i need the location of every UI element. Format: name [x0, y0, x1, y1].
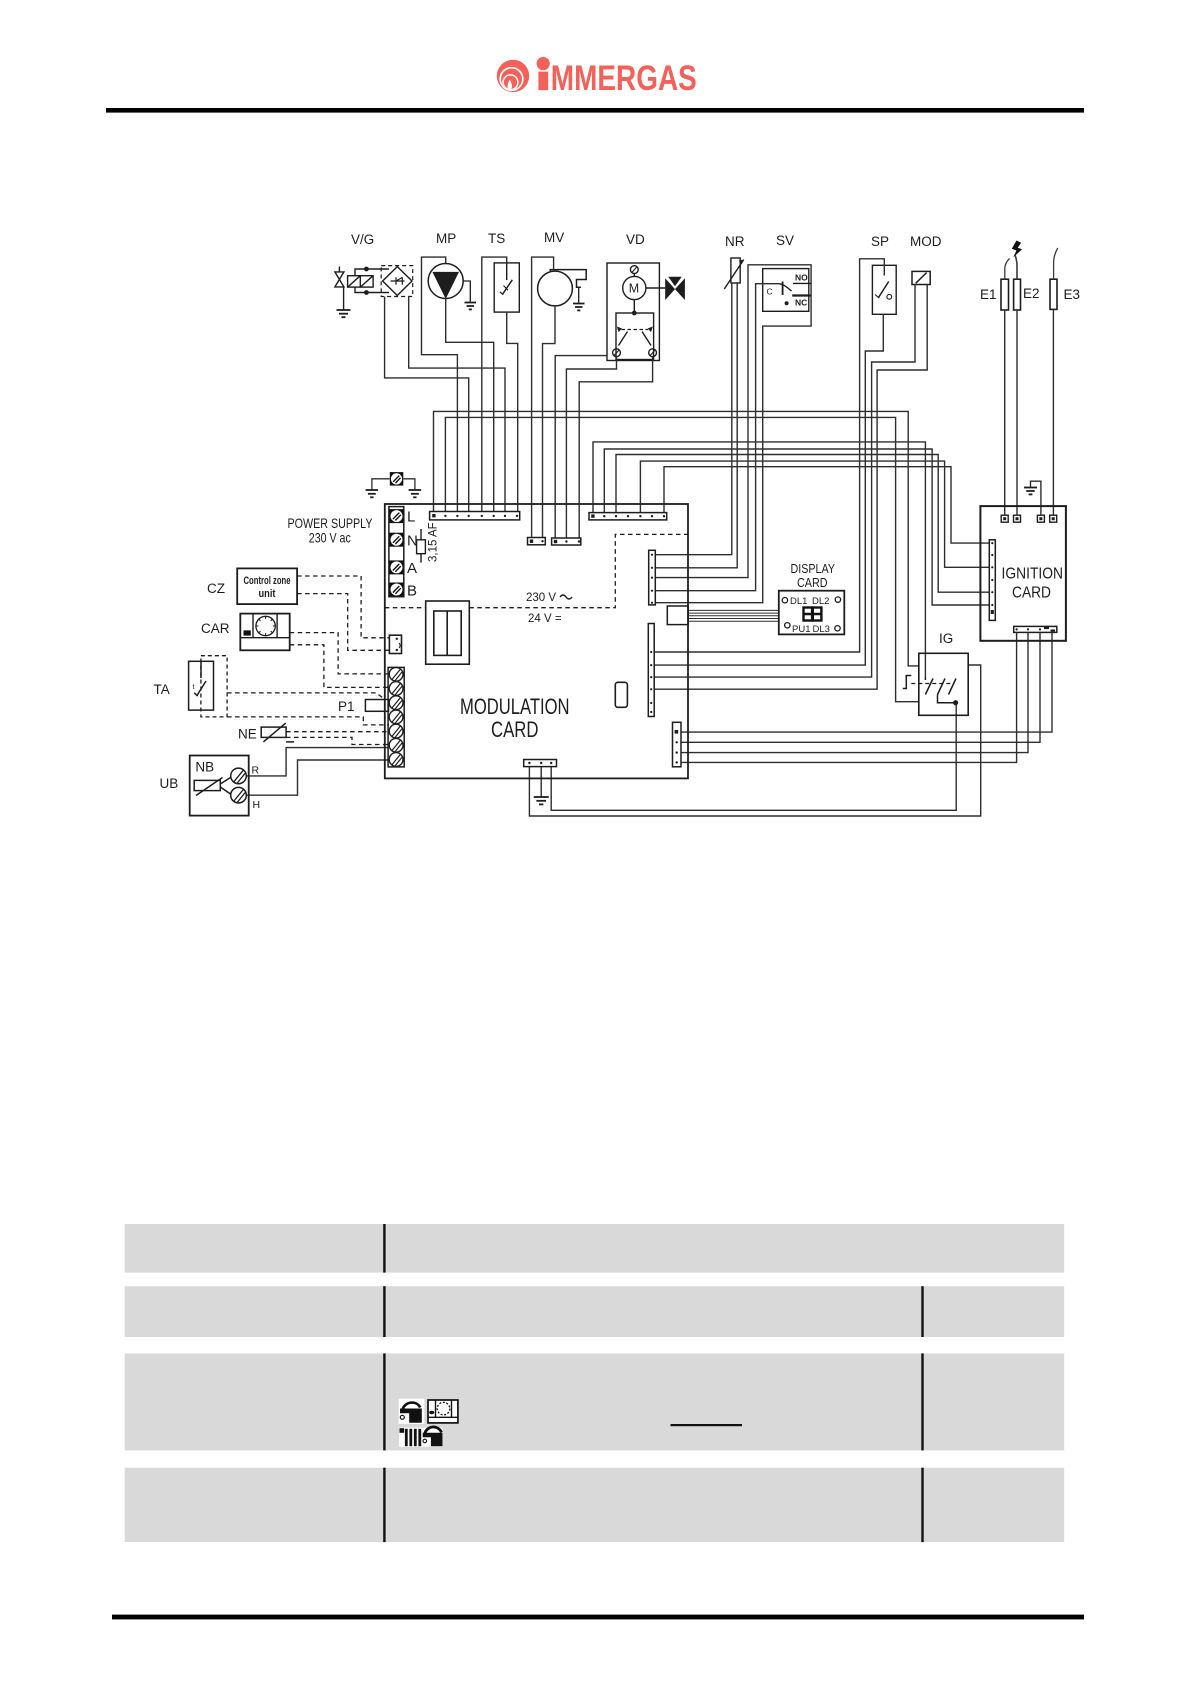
- wire conn4 pin3 nested to ignition connector pin3: [616, 455, 989, 593]
- spark lightning bolt: [1012, 241, 1022, 258]
- ground ignition: [1024, 488, 1037, 495]
- wire connB3 to MOD left: [654, 285, 915, 678]
- ground MP: [465, 303, 477, 310]
- svg-text:MOD: MOD: [910, 234, 942, 249]
- svg-text:24 V =: 24 V =: [528, 613, 562, 625]
- dashed link: [911, 683, 952, 685]
- switch blades: [925, 677, 956, 703]
- wire conn4 pin2 nested to ignition connector pin4: [604, 449, 989, 605]
- TA dashed enclosure: [201, 656, 227, 717]
- svg-text:L: L: [407, 509, 415, 526]
- svg-text:CARD: CARD: [1012, 585, 1051, 602]
- wire TS top to conn1 pin5: [482, 257, 507, 512]
- svg-text:NR: NR: [725, 234, 745, 249]
- svg-text:230 V: 230 V: [526, 592, 556, 604]
- wire connB1 to SP bracket: [654, 259, 884, 652]
- screw A: [390, 560, 404, 574]
- svg-text:TA: TA: [154, 682, 170, 697]
- wire conn4 pin1 nested to IG box: [593, 442, 925, 677]
- connector B (right vertical lower): [648, 624, 654, 717]
- modulation card outline: [385, 504, 688, 778]
- dashed TA lower wire: [227, 717, 389, 725]
- table row 2: [125, 1286, 1064, 1337]
- ribbon connector box: [667, 606, 688, 625]
- wire VD left edge to conn3 pin1: [555, 356, 607, 538]
- svg-text:3,15 AF: 3,15 AF: [428, 522, 440, 562]
- connector A (right vertical upper): [649, 550, 656, 605]
- svg-text:CZ: CZ: [207, 581, 225, 596]
- LED PU1: [785, 623, 790, 628]
- actuator symbol: [903, 676, 912, 689]
- wire MP bottom to conn1 pin6: [446, 299, 494, 513]
- wire MP top-left to conn1 pin3: [422, 257, 458, 512]
- icon faucet 2: [423, 1427, 443, 1446]
- wire conn4 pin4 nested to ignition connector pin2: [640, 461, 989, 567]
- small relay component: [615, 682, 627, 707]
- svg-text:VD: VD: [626, 232, 645, 247]
- svg-text:MP: MP: [436, 231, 456, 246]
- svg-text:R: R: [252, 765, 260, 777]
- svg-text:DL2: DL2: [812, 596, 829, 607]
- svg-text:DISPLAY: DISPLAY: [791, 561, 836, 576]
- ground below card: [534, 797, 549, 804]
- svg-text:M: M: [629, 282, 639, 296]
- wire connC1 to ignition bottom pin4: [681, 632, 1052, 732]
- wire connA2 to NR right: [655, 283, 737, 568]
- wire V/G right to conn1 pin7: [409, 297, 505, 513]
- wire MV bottom to conn2 pin2: [543, 306, 556, 538]
- control zone unit box: [237, 568, 297, 604]
- svg-text:E2: E2: [1023, 286, 1040, 301]
- connector 3 (small): [552, 538, 581, 545]
- svg-text:CAR: CAR: [201, 621, 230, 636]
- wire connC4 to ignition bottom pin1: [681, 632, 1017, 762]
- coil top/bottom brackets: [355, 269, 389, 276]
- icon radiator: [399, 1428, 443, 1447]
- svg-text:V/G: V/G: [351, 232, 374, 247]
- screw N: [390, 533, 404, 547]
- wire E3 down to ignition pin4: [1052, 309, 1054, 515]
- wire E2 down to ignition pin2: [1016, 310, 1018, 515]
- fuse 3,15 AF: [417, 529, 426, 563]
- dashed CAR wire 1: [290, 633, 389, 674]
- connector 4 (top right long): [589, 513, 667, 520]
- transformer: [426, 601, 470, 664]
- wire conn4 pin5 nested to ignition connector pin1: [664, 467, 989, 543]
- svg-text:DL3: DL3: [813, 624, 830, 635]
- wire ignition pin3 to ground: [1031, 481, 1041, 515]
- dashed CZ wire 1: [297, 576, 389, 638]
- svg-text:MV: MV: [544, 230, 564, 245]
- svg-text:IGNITION: IGNITION: [1002, 566, 1064, 583]
- lower-left terminal strip: [388, 667, 404, 767]
- coil V/G: [348, 276, 374, 287]
- ground left of earth terminal: [366, 490, 379, 497]
- ground MV: [573, 304, 585, 311]
- NE resistor: [261, 723, 294, 742]
- table row 3: [125, 1353, 1064, 1450]
- wire card-bottom pin2 to ground: [540, 767, 542, 797]
- earth terminal above card: [372, 472, 415, 489]
- icon faucet 1: [399, 1399, 425, 1424]
- connector C (bottom right vertical): [673, 722, 682, 767]
- wire connB4 to MOD right: [654, 285, 927, 690]
- pin squares top: [1001, 515, 1056, 522]
- wire card-bottom pin1 to IG right: [529, 665, 980, 816]
- LED DL1: [782, 598, 787, 603]
- wire UB R to card strip: [247, 748, 389, 776]
- wire VD left screw to conn3 pin2: [566, 357, 616, 538]
- wire connA1 to NR left: [655, 283, 732, 555]
- svg-text:NO: NO: [795, 273, 808, 283]
- table row 4: [125, 1468, 1064, 1542]
- svg-text:t: t: [193, 684, 195, 691]
- svg-text:IG: IG: [939, 631, 953, 646]
- dashed box around rectifier: [381, 266, 413, 297]
- svg-text:NC: NC: [795, 298, 807, 308]
- dashed NE wire 1: [286, 731, 389, 733]
- svg-text:SP: SP: [871, 234, 889, 249]
- dashed NE wire 2: [286, 737, 389, 744]
- 3-way valve black symbol: [665, 277, 685, 300]
- top rule: [106, 108, 1084, 113]
- svg-text:unit: unit: [259, 588, 276, 600]
- LED DL2: [835, 597, 840, 602]
- svg-text:CARD: CARD: [797, 575, 828, 590]
- row3 short line: [671, 1424, 743, 1426]
- ribbon wires to display card: [688, 610, 779, 621]
- wire connA3 SV loop: [655, 265, 811, 603]
- svg-text:DL1: DL1: [790, 596, 807, 607]
- wire conn1 pin1 long horizontal to IG: [434, 411, 919, 666]
- svg-text:P1: P1: [338, 699, 355, 714]
- svg-text:E3: E3: [1064, 287, 1081, 302]
- svg-text:SV: SV: [776, 233, 794, 248]
- wire TS bottom to conn1 pin8: [507, 312, 518, 512]
- wire connC3 to ignition bottom pin2: [681, 632, 1028, 752]
- wire connA4 to SV common: [655, 284, 779, 591]
- svg-text:A: A: [407, 560, 417, 577]
- wire E1 down to ignition pin1: [1004, 310, 1006, 515]
- wire conn1 pin2 long horizontal to IG lower: [445, 417, 918, 701]
- wire VD right screw to conn3 pin3: [579, 357, 652, 538]
- L N A B terminal strip: [389, 507, 404, 597]
- svg-text:TS: TS: [488, 231, 505, 246]
- 230V/24V dashed divider: [385, 534, 688, 607]
- dashed CZ wire 2: [297, 594, 389, 651]
- NB probe: [194, 778, 230, 796]
- wire card-bottom pin3 to IG dot: [551, 703, 956, 810]
- rectifier diamond: [383, 267, 412, 296]
- wire connB2 to SP bottom: [654, 314, 883, 665]
- small left-edge connector (CZ plug): [389, 635, 401, 653]
- TA thermostat box: [189, 661, 214, 710]
- ground V/G: [337, 310, 351, 317]
- UB boiler unit box: [190, 756, 249, 816]
- svg-text:230 V ac: 230 V ac: [309, 530, 351, 546]
- CAR remote control box: [240, 614, 289, 651]
- table row 1: [125, 1224, 1064, 1273]
- svg-text:NB: NB: [195, 760, 214, 775]
- wire connC2 to ignition bottom pin3: [681, 632, 1040, 742]
- svg-text:CARD: CARD: [491, 717, 539, 742]
- svg-text:H: H: [253, 799, 261, 811]
- screw L: [390, 509, 404, 523]
- wire UB H to card strip: [247, 760, 389, 795]
- valve bowtie: [335, 272, 344, 287]
- svg-text:Control zone: Control zone: [244, 575, 291, 587]
- dashed CAR wire 2: [290, 645, 389, 688]
- wire MV top-left to conn2 pin1: [532, 257, 554, 537]
- 7-segment display: [804, 608, 822, 621]
- ground lead: [343, 287, 345, 310]
- ignition left connector: [989, 540, 995, 621]
- svg-text:NE: NE: [238, 727, 257, 742]
- svg-text:MMERGAS: MMERGAS: [551, 59, 697, 98]
- ground right of earth terminal: [409, 490, 422, 497]
- svg-text:UB: UB: [160, 776, 179, 791]
- svg-text:E1: E1: [980, 287, 997, 302]
- row3 icons: [399, 1399, 458, 1447]
- svg-text:MODULATION: MODULATION: [460, 694, 570, 719]
- svg-text:PU1: PU1: [792, 624, 810, 635]
- icon control panel: [428, 1400, 458, 1423]
- connector 1 (top long): [430, 512, 520, 520]
- svg-text:B: B: [407, 583, 417, 600]
- UB screw R: [231, 768, 247, 784]
- UB screw H: [231, 787, 247, 803]
- bottom rule: [112, 1615, 1084, 1620]
- screw B: [390, 583, 404, 597]
- junction dots V/G: [364, 267, 369, 272]
- Immergas logo: [497, 57, 697, 98]
- card bottom connector: [524, 760, 557, 767]
- LED DL3: [835, 626, 840, 631]
- connector 2 (small): [528, 538, 546, 545]
- wire V/G left to conn1 pin4: [385, 297, 469, 513]
- dashed TA wire: [227, 693, 385, 700]
- ignition bottom connector: [1014, 626, 1057, 632]
- svg-text:C: C: [767, 287, 773, 297]
- P1 connector: [365, 700, 388, 712]
